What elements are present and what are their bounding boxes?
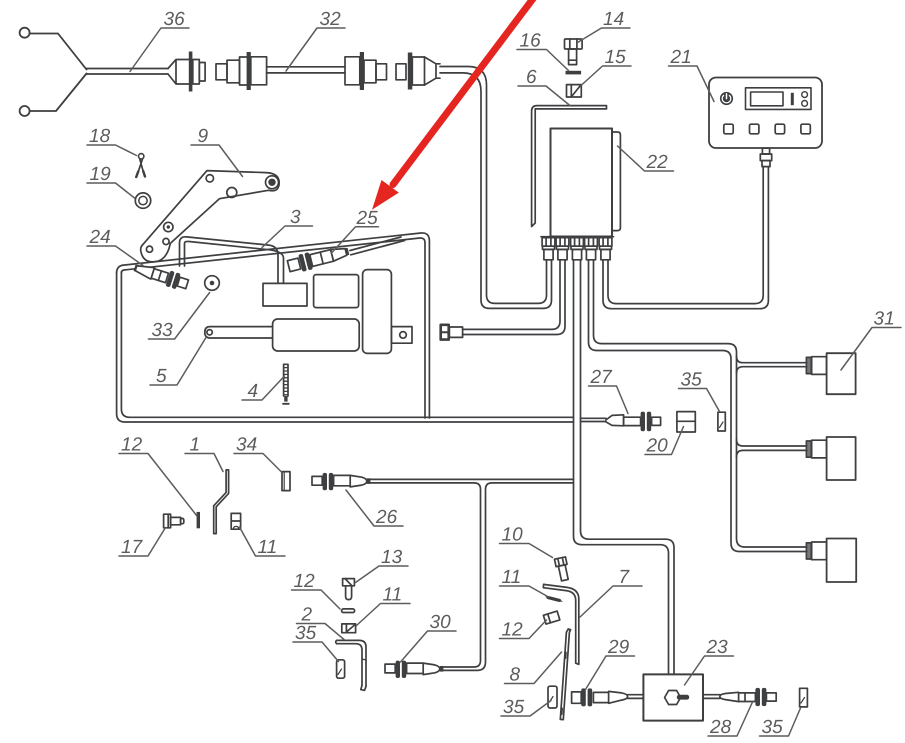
leader 6 [518, 86, 571, 106]
bolt 10 [554, 557, 570, 581]
washer 19 [135, 193, 150, 208]
leader 21 [669, 66, 715, 102]
svg-text:13: 13 [381, 547, 403, 568]
connector 28 [720, 688, 776, 706]
nut 15 [567, 85, 582, 97]
bracket 20 [677, 412, 695, 432]
svg-text:6: 6 [526, 67, 537, 88]
svg-text:35: 35 [503, 697, 525, 718]
svg-text:22: 22 [646, 152, 669, 173]
buttons [724, 124, 733, 134]
loop bottom + left edge [117, 272, 574, 422]
leader 4 [242, 376, 285, 400]
connector 24 (on loop corner) [132, 260, 189, 292]
bolt 17 [164, 514, 184, 528]
leader 35 middle [293, 642, 339, 662]
control box 23 [643, 674, 703, 720]
solenoid 31 #3 [806, 539, 856, 583]
bracket 2 [336, 640, 366, 690]
svg-text:5: 5 [156, 366, 167, 387]
actuator mount tab [391, 327, 412, 344]
svg-text:7: 7 [619, 567, 631, 588]
wire c3 to control box 23 [574, 260, 675, 675]
svg-text:17: 17 [121, 537, 144, 558]
leader 32 [286, 28, 345, 71]
svg-text:12: 12 [502, 620, 524, 641]
cable 36 assembly [20, 28, 206, 116]
svg-text:27: 27 [590, 367, 614, 388]
wire 26 to connector 30 [370, 479, 573, 670]
leader 26 [346, 490, 403, 526]
connector 26 [312, 473, 370, 490]
branch wire to solenoid 2 [737, 440, 807, 457]
svg-text:33: 33 [152, 320, 174, 341]
clip 35 (bottom right) [800, 688, 808, 707]
connector 29 [572, 688, 628, 706]
display group [746, 88, 812, 110]
control unit bottom connectors [542, 238, 612, 260]
leader 35 bottom right [760, 708, 801, 736]
strip 8 [560, 629, 570, 720]
leader 35 bottom left [501, 701, 551, 717]
svg-text:34: 34 [236, 435, 257, 456]
actuator switch box [263, 283, 307, 306]
svg-text:35: 35 [681, 370, 703, 391]
ring terminal 2 [20, 106, 30, 116]
mating connector head on wire c2 [441, 325, 463, 340]
leader 33 [148, 293, 209, 340]
twin wire [267, 67, 345, 73]
leader 11 left [240, 527, 286, 556]
svg-text:16: 16 [520, 31, 542, 52]
solenoid 31 #2 [806, 437, 855, 480]
svg-text:11: 11 [258, 537, 278, 558]
washer 33 [205, 276, 220, 291]
actuator cylinder [273, 319, 360, 351]
bolt 14 [565, 39, 583, 65]
svg-text:23: 23 [706, 637, 729, 658]
control panel 21 [709, 78, 822, 167]
leader 27 [589, 386, 629, 414]
svg-text:11: 11 [383, 585, 403, 606]
svg-text:29: 29 [607, 637, 630, 658]
svg-text:35: 35 [295, 623, 317, 644]
leader 7 [580, 586, 642, 617]
red arrow [372, 0, 534, 210]
leader 2 [297, 624, 345, 640]
connector 25 pair [287, 243, 351, 275]
screw 4 [283, 364, 289, 404]
wire c4 to right trunk [589, 260, 807, 552]
svg-text:9: 9 [198, 126, 209, 147]
leader 12 middle [292, 590, 341, 609]
svg-text:1: 1 [190, 435, 201, 456]
washer 16 [566, 71, 582, 75]
svg-text:10: 10 [502, 525, 524, 546]
wire box23 to connector 29 [627, 695, 643, 699]
leader 25 [332, 227, 379, 253]
leader 18 [87, 145, 137, 156]
main harness loop wire [117, 233, 574, 422]
right connector [345, 57, 360, 85]
svg-text:18: 18 [89, 126, 111, 147]
svg-text:32: 32 [320, 9, 342, 30]
conn stubs c1..c5 [542, 238, 555, 260]
leader 29 [586, 656, 635, 690]
wire 3 (harness to actuator switch) [180, 237, 284, 283]
nut 11 (left) [231, 513, 240, 529]
washer 12 (middle) [342, 609, 355, 613]
panel cable connector [762, 148, 769, 154]
leader 3 [262, 226, 313, 248]
cable 32 assembly [216, 52, 387, 90]
leader 5 [150, 338, 206, 386]
leader 31 [841, 328, 901, 371]
cotter pin 18 [136, 154, 145, 177]
leader 10 [500, 544, 553, 558]
svg-text:4: 4 [248, 381, 259, 402]
svg-text:28: 28 [709, 717, 732, 738]
leader 24 [87, 246, 143, 266]
leader 36 [130, 28, 189, 72]
control unit 22 [541, 129, 620, 237]
svg-text:15: 15 [605, 47, 627, 68]
power button [720, 92, 733, 105]
svg-text:31: 31 [874, 309, 895, 330]
leader 11 right [500, 586, 549, 597]
leader 28 [708, 702, 753, 736]
svg-text:25: 25 [356, 208, 379, 229]
branch wire to solenoid 1 [737, 356, 807, 373]
svg-text:8: 8 [510, 665, 521, 686]
bracket 1 [214, 470, 229, 534]
leader 20 [645, 427, 684, 455]
wire [30, 74, 87, 112]
svg-text:26: 26 [375, 507, 398, 528]
connector 30 [385, 661, 443, 678]
wire c5 to panel 21 [603, 167, 768, 309]
leader 14 [578, 28, 631, 43]
leader 17 [119, 528, 166, 557]
leader 19 [87, 183, 135, 198]
ring terminal 1 [20, 28, 30, 38]
svg-text:24: 24 [89, 227, 111, 248]
leader 30 [401, 631, 457, 662]
svg-text:3: 3 [290, 207, 301, 228]
bushing 12 (near rod 7) [543, 611, 559, 624]
rod 7 [543, 584, 579, 664]
leader 16 [517, 50, 569, 71]
leader 13 [356, 566, 409, 583]
wire c2 to mating head [463, 260, 566, 335]
svg-text:21: 21 [670, 47, 692, 68]
clip 34 [282, 472, 290, 491]
leader 11 middle [357, 604, 411, 626]
pin 12 (left) [197, 512, 200, 528]
cable 36 twin wire [87, 69, 169, 75]
svg-text:35: 35 [762, 717, 784, 738]
leader 8 [505, 652, 562, 684]
svg-text:11: 11 [502, 567, 522, 588]
wire [30, 34, 87, 70]
clip 35 (middle) [337, 660, 345, 678]
svg-text:36: 36 [164, 9, 186, 30]
actuator rod 5 [205, 327, 273, 338]
left connector [216, 64, 227, 80]
svg-text:12: 12 [294, 571, 316, 592]
actuator end cap [363, 270, 392, 354]
bracket 9 [141, 171, 280, 262]
pin 11 (near rod 7) [546, 597, 562, 602]
leader 22 [618, 146, 674, 171]
leader 1 [185, 454, 223, 472]
svg-text:30: 30 [430, 612, 452, 633]
wire from connector 25 to loop edge [350, 237, 405, 255]
leader 34 [234, 454, 282, 473]
clip 35 (upper) [718, 412, 725, 431]
harness connector (mates cable 32) [396, 53, 552, 309]
wire box23 to connector 28 [703, 695, 720, 699]
svg-text:12: 12 [121, 435, 143, 456]
wire to control unit conn 1 [440, 67, 547, 304]
solenoid 31 #1 [806, 353, 855, 394]
connector 27 pair [581, 412, 661, 432]
leader 9 [191, 145, 243, 177]
nut 11 (middle) [342, 624, 356, 633]
svg-text:20: 20 [646, 436, 669, 457]
leader 35 upper [679, 389, 720, 412]
svg-text:19: 19 [90, 164, 112, 185]
bracket 6 [532, 106, 607, 227]
leader 12 right [500, 620, 547, 639]
actuator motor box [314, 275, 359, 308]
bolt 13 [343, 579, 355, 600]
clip 35 (bottom left) [548, 686, 557, 708]
connector of cable 36 [168, 60, 189, 85]
svg-text:14: 14 [603, 9, 624, 30]
loop top sloped edge + right edge [117, 233, 430, 418]
leader 23 [685, 656, 734, 685]
leader 12 left [119, 454, 197, 517]
leader 15 [581, 66, 631, 86]
